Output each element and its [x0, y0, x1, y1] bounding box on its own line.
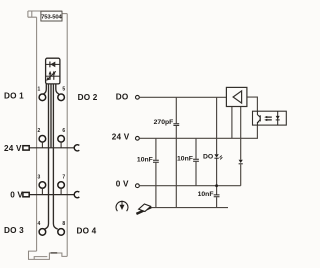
wire 24V feed: [50, 84, 52, 148]
svg-text:3: 3: [38, 174, 41, 180]
stem 6: [60, 142, 62, 148]
module top-right step: [62, 13, 67, 15]
svg-text:7: 7: [62, 174, 65, 180]
amp output wire: [247, 97, 258, 111]
svg-text:270pF: 270pF: [154, 119, 174, 126]
terminal 24V: [136, 136, 140, 140]
svg-text:6: 6: [62, 128, 65, 134]
svg-text:DO: DO: [116, 92, 129, 101]
opto light arrows: [266, 117, 272, 120]
foot dark step segment: [51, 252, 58, 254]
amp right pin / diode wire: [240, 107, 242, 186]
svg-text:DO 4: DO 4: [77, 227, 97, 236]
label box 753-504: [41, 11, 63, 21]
svg-text:24 V: 24 V: [112, 132, 130, 141]
DO wire: [139, 96, 226, 98]
0V clamp C: [74, 192, 79, 198]
terminal stems rows 2,3: [42, 142, 61, 195]
LED DO indicator: [214, 154, 222, 159]
svg-text:10nF: 10nF: [177, 156, 193, 163]
svg-text:4: 4: [38, 221, 41, 227]
wire 10nF mid branch: [195, 138, 197, 185]
icon output arrows: [46, 75, 60, 77]
24V row wire: [29, 147, 75, 149]
wire DO3 run: [45, 84, 49, 229]
optocoupler box: [253, 111, 287, 125]
svg-text:DO 2: DO 2: [78, 93, 98, 102]
svg-text:10nF: 10nF: [137, 157, 153, 164]
earth rail: [149, 207, 228, 209]
terminal DO: [136, 95, 140, 99]
wire B (10nF 24V branch): [155, 138, 157, 207]
terminal 0V: [136, 184, 140, 188]
24V rail: [139, 125, 257, 138]
terminal 3: [39, 182, 46, 189]
terminal 5: [58, 94, 65, 101]
stem 3: [41, 188, 43, 194]
junction dot 0V/wire C: [215, 184, 218, 187]
opto transistor: [259, 115, 261, 121]
capacitor 10nF (24V-earth): [153, 160, 159, 162]
diode (freewheel to 0V): [239, 160, 243, 164]
earth surge symbol (circle arrow): [116, 201, 128, 212]
module right edge: [66, 14, 68, 257]
terminal 1: [39, 94, 46, 101]
amp left pin: [231, 107, 233, 139]
svg-text:2: 2: [38, 128, 41, 134]
module top edge: [28, 10, 62, 12]
terminal 2: [39, 136, 46, 143]
svg-text:24 V: 24 V: [4, 144, 22, 153]
driver triangle: [233, 91, 242, 103]
capacitor 270pF: [173, 124, 179, 126]
stem 2: [41, 142, 43, 148]
svg-text:0 V: 0 V: [10, 190, 23, 199]
module left edge: [36, 17, 38, 251]
0V rail: [139, 185, 240, 187]
terminal 4: [39, 229, 46, 236]
0V plug symbol: [23, 192, 29, 196]
wire bundle from icon box: [44, 84, 59, 229]
opto LED diode: [277, 111, 279, 125]
wire DO1 drop: [44, 84, 47, 94]
capacitor 10nF (24V-0V): [193, 159, 199, 161]
wire DO4 run: [53, 84, 57, 229]
module bottom foot: [29, 251, 68, 259]
icon box: [46, 58, 60, 84]
stem 7: [60, 188, 62, 194]
capacitor 10nF (0V-earth): [214, 195, 220, 197]
svg-text:753-504: 753-504: [41, 15, 62, 21]
svg-text:5: 5: [62, 87, 65, 93]
svg-text:DO 3: DO 3: [4, 226, 24, 235]
svg-text:1: 1: [38, 87, 41, 93]
terminal 7: [58, 182, 65, 189]
pin numbers: [38, 87, 66, 228]
svg-text:DO 1: DO 1: [4, 92, 24, 101]
svg-text:DO: DO: [203, 153, 213, 160]
opto transistor wire: [256, 111, 258, 125]
svg-text:10nF: 10nF: [198, 191, 214, 198]
icon diode D (suppressor): [46, 63, 60, 65]
terminal circles: [39, 94, 64, 235]
24V clamp C: [74, 145, 79, 151]
24V plug symbol: [23, 146, 29, 150]
chassis earth symbol: [136, 204, 151, 214]
svg-text:8: 8: [62, 221, 65, 227]
terminal 8: [58, 229, 65, 236]
wire C (DO LED branch): [216, 97, 218, 207]
wire DO2 drop: [56, 84, 59, 94]
svg-text:0 V: 0 V: [116, 180, 129, 189]
wire A (270pF branch): [175, 97, 177, 207]
terminal 6: [58, 136, 65, 143]
0V row wire: [29, 194, 75, 196]
op-amp driver box: [226, 87, 247, 106]
module top-left latch: [28, 11, 37, 17]
